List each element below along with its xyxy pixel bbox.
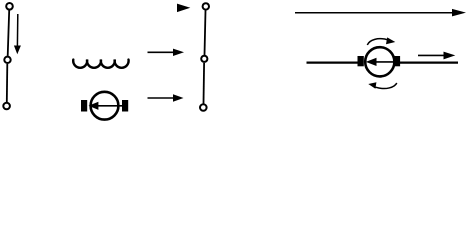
arrow A2 (right, lower) — [148, 94, 184, 101]
motor M2 right brush — [394, 56, 400, 66]
wire W2 middle terminal — [201, 56, 207, 62]
arrow A4 (long, top right) — [295, 9, 466, 17]
arrow A5 (short, right of motor M2) — [418, 52, 455, 60]
motor M1 left brush — [81, 100, 87, 112]
rotation arrow R2 (bottom of motor M2, clockwise) — [368, 82, 397, 89]
rotation arrow R1 (top of motor M2, clockwise) — [367, 37, 395, 45]
wire W2 top terminal — [203, 3, 209, 9]
wire W2 bottom terminal — [200, 104, 207, 111]
motor M1 body — [91, 92, 119, 120]
wire W2 lower segment — [203, 63, 206, 104]
inductor L1 — [73, 60, 128, 68]
wire W1 middle terminal — [4, 57, 10, 63]
wire W1 bottom terminal — [3, 103, 10, 110]
wire W2 upper segment — [205, 10, 206, 55]
wire W1 upper segment — [8, 10, 10, 56]
wire W1 lower segment — [6, 64, 9, 102]
shaft line S1 right (out of motor M2) — [399, 61, 459, 63]
motor M2 body — [365, 47, 394, 76]
motor M2 internal current arrow (leftward) — [366, 58, 394, 66]
motor M1 internal current arrow (leftward) — [89, 102, 123, 110]
shaft line S1 left (into motor M2) — [307, 61, 360, 63]
motor M2 left brush — [358, 56, 364, 66]
wire W1 top terminal — [6, 3, 13, 10]
arrowhead A3 (solid triangle, top middle) — [177, 4, 190, 13]
arrow A1 (right, upper) — [148, 49, 185, 56]
motor M1 right brush — [122, 100, 128, 112]
current arrow I1 (downward beside wire W1) — [14, 14, 21, 54]
